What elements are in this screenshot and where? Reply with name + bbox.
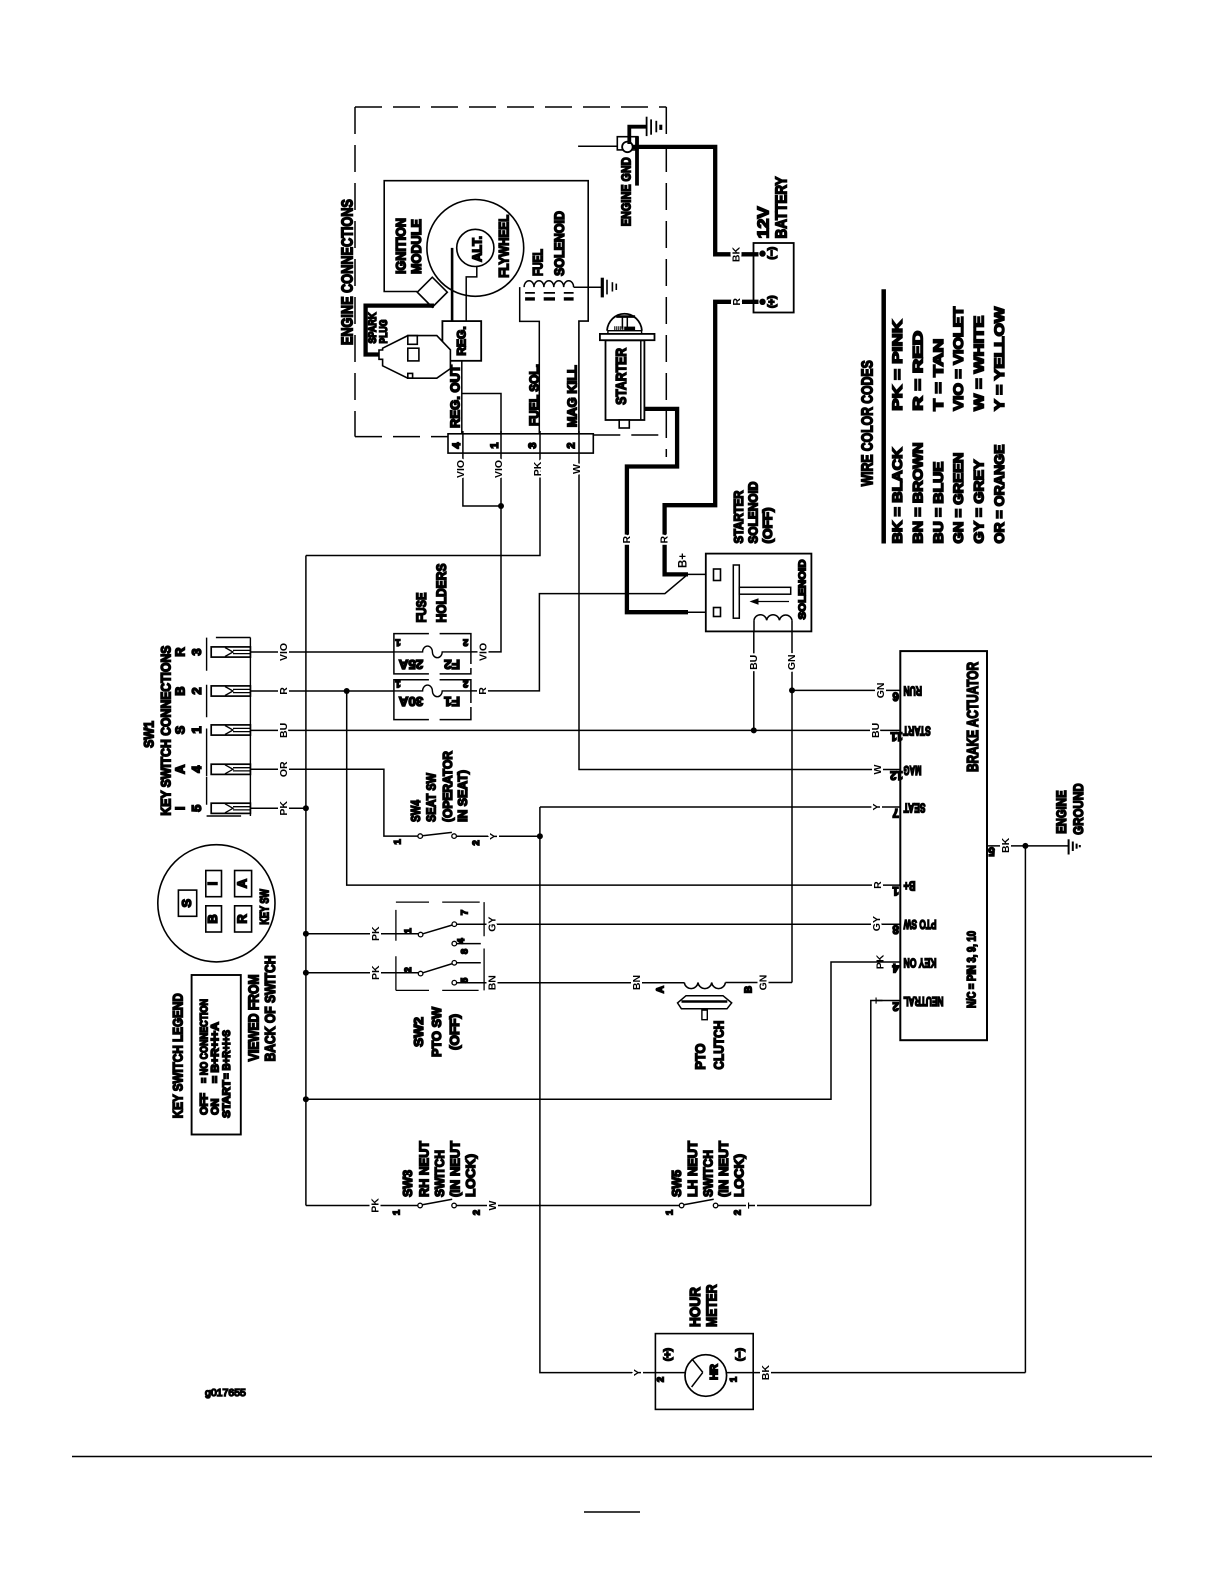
svg-text:MAG KILL: MAG KILL xyxy=(566,365,580,427)
wire W SW3 to SW5 xyxy=(456,1205,679,1207)
svg-text:R: R xyxy=(477,687,489,695)
svg-text:START: START xyxy=(221,1080,233,1118)
svg-text:BU = BLUE: BU = BLUE xyxy=(931,461,946,543)
alternator circle U? xyxy=(457,229,494,266)
svg-text:METER: METER xyxy=(704,1284,721,1327)
svg-text:Y: Y xyxy=(871,803,883,810)
pin 1 B+ xyxy=(872,878,916,896)
svg-text:7: 7 xyxy=(459,910,470,915)
battery negative terminal xyxy=(759,250,765,256)
SW1 terminal 3 xyxy=(211,647,250,657)
svg-text:GY = GREY: GY = GREY xyxy=(972,460,987,544)
brake actuator module box xyxy=(900,651,987,1040)
svg-text:SOLENOID: SOLENOID xyxy=(797,559,809,619)
solenoid plunger arrow xyxy=(756,601,789,603)
svg-text:BRAKE ACTUATOR: BRAKE ACTUATOR xyxy=(965,662,982,772)
svg-text:FLYWHEEL: FLYWHEEL xyxy=(497,215,512,278)
svg-text:R: R xyxy=(173,647,188,657)
wire alt to reg (left) xyxy=(451,248,454,321)
svg-text:Y = YELLOW: Y = YELLOW xyxy=(992,306,1007,410)
wire BN SW2-5 to PTO clutch xyxy=(457,982,685,984)
svg-text:A: A xyxy=(173,764,188,774)
engine connector J1 box xyxy=(448,434,593,453)
svg-text:2: 2 xyxy=(655,1377,666,1382)
svg-text:SW3: SW3 xyxy=(400,1170,415,1197)
svg-text:RUN: RUN xyxy=(903,684,922,698)
switch SW4 seat xyxy=(393,832,483,845)
svg-text:A: A xyxy=(234,878,249,888)
label SW5 LH NEUT SWITCH (IN NEUT LOCK) xyxy=(669,1141,747,1197)
svg-text:GN = GREEN: GN = GREEN xyxy=(951,452,966,543)
svg-text:8: 8 xyxy=(459,949,470,954)
regulator REG box xyxy=(442,321,481,361)
svg-text:ENGINE GND: ENGINE GND xyxy=(619,157,634,226)
starter body xyxy=(606,340,645,420)
wire T SW5 out xyxy=(718,1205,871,1207)
starter flange xyxy=(608,331,642,334)
engine gnd terminal box xyxy=(617,137,638,150)
svg-text:Y: Y xyxy=(488,833,500,840)
wire Y SW4 to junction xyxy=(456,835,540,837)
svg-text:BU: BU xyxy=(748,655,760,670)
svg-text:KEY SWITCH CONNECTIONS: KEY SWITCH CONNECTIONS xyxy=(159,646,174,816)
svg-text:BK: BK xyxy=(1000,837,1012,853)
svg-text:BK = BLACK: BK = BLACK xyxy=(890,447,905,543)
svg-text:R = RED: R = RED xyxy=(910,330,925,410)
svg-text:3: 3 xyxy=(527,443,539,449)
svg-text:PK: PK xyxy=(370,965,382,980)
SW1 terminal 5 xyxy=(211,803,250,813)
solenoid contact T-bar xyxy=(733,565,739,618)
SW2 blade 2-8 xyxy=(423,964,453,973)
svg-text:VIO: VIO xyxy=(493,460,505,478)
key switch legend box xyxy=(192,975,241,1135)
solenoid coil stubs xyxy=(754,620,792,631)
svg-text:(IN NEUT: (IN NEUT xyxy=(716,1141,731,1197)
wire PK key-on xyxy=(306,962,900,1099)
svg-text:STARTER: STARTER xyxy=(731,490,746,544)
svg-text:BU: BU xyxy=(870,723,882,738)
SW2 pin 1 contact xyxy=(418,932,423,937)
pin 11 START xyxy=(870,723,931,742)
svg-text:1: 1 xyxy=(395,637,401,648)
wire OR SW1-4 to seat switch xyxy=(250,769,418,836)
wire PK bus vertical xyxy=(305,556,307,1206)
pin 12 MAG xyxy=(872,763,922,781)
svg-text:KEY SWITCH LEGEND: KEY SWITCH LEGEND xyxy=(170,993,186,1118)
ground (engine gnd) xyxy=(647,117,661,136)
starter dome details xyxy=(615,317,635,331)
SW3 contacts and blade xyxy=(418,1199,457,1207)
label MAG KILL xyxy=(566,365,580,427)
wire VIO pin1 drop to fuse F2 xyxy=(471,454,501,652)
svg-text:BACK OF SWITCH: BACK OF SWITCH xyxy=(263,955,279,1061)
svg-text:REG.: REG. xyxy=(455,326,469,355)
ignition module U-box xyxy=(384,181,588,434)
label SW3 RH NEUT SWITCH (IN NEUT LOCK) xyxy=(400,1141,478,1197)
svg-text:GROUND: GROUND xyxy=(1070,783,1086,835)
svg-text:PLUG: PLUG xyxy=(378,320,390,344)
svg-text:PK: PK xyxy=(370,1198,382,1213)
svg-text:STARTER: STARTER xyxy=(613,348,630,405)
PTO clutch plate xyxy=(678,996,732,1009)
svg-text:25A: 25A xyxy=(398,657,423,672)
hour meter wire inside left xyxy=(655,1372,685,1374)
wire color codes title bar xyxy=(881,289,886,543)
key sw tab S xyxy=(178,890,196,916)
svg-text:VIO: VIO xyxy=(455,460,467,478)
svg-text:11: 11 xyxy=(890,729,903,741)
svg-text:HOUR: HOUR xyxy=(687,1287,704,1327)
svg-text:ENGINE CONNECTIONS: ENGINE CONNECTIONS xyxy=(340,199,357,345)
svg-text:12: 12 xyxy=(890,769,903,781)
label SW2 PTO SW (OFF) xyxy=(411,1006,462,1057)
svg-text:1: 1 xyxy=(892,884,899,896)
SW2 blade 1-7 xyxy=(423,925,453,934)
label FUEL SOL. xyxy=(528,364,542,426)
svg-text:4: 4 xyxy=(451,442,463,449)
switch SW2 PTO top pole wire xyxy=(306,933,418,935)
label STARTER SOLENOID (OFF) xyxy=(731,482,775,544)
svg-text:5: 5 xyxy=(988,844,995,856)
SW2 pin 8 stub xyxy=(457,962,481,964)
svg-text:LOCK): LOCK) xyxy=(732,1154,747,1197)
svg-text:2: 2 xyxy=(472,1210,483,1215)
svg-text:SW5: SW5 xyxy=(669,1170,684,1197)
svg-text:A: A xyxy=(656,986,667,993)
SW1 terminal letters R B S A I xyxy=(173,647,188,810)
svg-text:GN: GN xyxy=(786,654,798,670)
svg-text:I: I xyxy=(205,882,220,886)
svg-text:(+): (+) xyxy=(662,1348,674,1361)
svg-text:HR: HR xyxy=(709,1364,721,1380)
svg-text:SWITCH: SWITCH xyxy=(701,1150,716,1197)
svg-text:ALT.: ALT. xyxy=(471,236,485,262)
solenoid coil xyxy=(754,615,792,621)
svg-text:SOLENOID: SOLENOID xyxy=(746,482,761,544)
solenoid contact stem xyxy=(739,587,790,594)
svg-text:2: 2 xyxy=(566,443,578,449)
SW2 pin 2 contact xyxy=(418,971,423,976)
wire R battery positive (thick) xyxy=(665,302,759,575)
svg-text:REG. OUT: REG. OUT xyxy=(449,365,463,428)
svg-text:(IN NEUT: (IN NEUT xyxy=(448,1141,463,1197)
svg-text:BN: BN xyxy=(487,975,499,990)
wire R riser to B+ line xyxy=(347,691,901,885)
wire W pin2 drop to MAG xyxy=(579,454,900,770)
battery BT1 xyxy=(754,243,794,313)
wire engine gnd to ground symbol xyxy=(629,127,646,144)
svg-text:VIO: VIO xyxy=(478,643,490,661)
svg-text:2: 2 xyxy=(403,967,414,972)
fuse F1 element xyxy=(394,685,471,697)
SW2 pin 7 contact xyxy=(452,922,457,927)
SW2 bracket marks xyxy=(396,902,484,990)
node VIO junction xyxy=(498,503,504,509)
wire BK battery negative (thick) xyxy=(632,147,759,254)
svg-text:KEY ON: KEY ON xyxy=(904,955,937,969)
solenoid lower terminal xyxy=(714,608,721,617)
fuel solenoid body / wire to pin 3 xyxy=(520,287,540,434)
svg-text:MODULE: MODULE xyxy=(409,219,424,274)
svg-text:OR: OR xyxy=(278,761,290,777)
fuel solenoid coil xyxy=(524,281,574,287)
PTO clutch stem xyxy=(702,1010,707,1020)
switch SW2 PTO bottom pole wire xyxy=(306,972,418,974)
SW1 terminal 4 xyxy=(211,764,250,774)
svg-text:ON: ON xyxy=(210,1098,222,1115)
svg-text:2: 2 xyxy=(892,1000,898,1012)
svg-text:B: B xyxy=(173,686,188,695)
key sw tab B xyxy=(206,906,222,932)
svg-text:Y: Y xyxy=(632,1369,644,1376)
svg-text:WIRE COLOR CODES: WIRE COLOR CODES xyxy=(860,360,877,486)
svg-text:W = WHITE: W = WHITE xyxy=(972,316,987,411)
pin 8 PTO SW xyxy=(871,916,937,935)
PTO clutch coil xyxy=(684,983,725,989)
fuse F2 box xyxy=(394,634,471,674)
svg-text:NEUTRAL: NEUTRAL xyxy=(903,994,943,1008)
footer page mark xyxy=(584,1511,640,1513)
SW2 pin 8 contact xyxy=(452,961,457,966)
footer rule xyxy=(72,1456,1152,1458)
svg-text:8: 8 xyxy=(892,923,899,935)
svg-text:VIEWED FROM: VIEWED FROM xyxy=(247,974,263,1061)
wire to engine gnd terminal xyxy=(578,145,617,147)
pin 4 KEY ON xyxy=(875,954,937,973)
engine gnd strap stub xyxy=(635,137,639,186)
spark plug thick lead xyxy=(366,306,434,355)
svg-text:(OFF): (OFF) xyxy=(447,1014,462,1050)
solenoid upper terminal xyxy=(714,569,721,581)
wire VIO SW1-3 to fuse F2 xyxy=(250,651,394,653)
svg-text:GN: GN xyxy=(758,975,770,991)
battery positive terminal xyxy=(759,299,765,305)
svg-text:MAG: MAG xyxy=(904,763,922,777)
label fuel solenoid xyxy=(531,211,567,276)
svg-text:= B+R+I+S: = B+R+I+S xyxy=(221,1030,233,1079)
svg-text:FUEL SOL.: FUEL SOL. xyxy=(528,364,542,426)
hour meter wire right / BK xyxy=(727,1372,1026,1374)
svg-text:W: W xyxy=(872,764,884,774)
svg-text:ENGINE: ENGINE xyxy=(1053,790,1069,834)
key sw tab I xyxy=(206,871,222,897)
hour meter hands xyxy=(692,1359,703,1387)
key sw tab R xyxy=(235,906,252,932)
legend line OFF xyxy=(199,999,211,1115)
engine connections dashed boundary xyxy=(355,107,666,457)
svg-text:SEAT SW: SEAT SW xyxy=(424,772,439,822)
svg-text:HOLDERS: HOLDERS xyxy=(434,564,449,623)
svg-text:PK: PK xyxy=(370,926,382,941)
svg-text:KEY SW: KEY SW xyxy=(258,889,272,925)
svg-text:W: W xyxy=(487,1200,499,1210)
label PTO CLUTCH xyxy=(692,1021,727,1070)
svg-text:1: 1 xyxy=(729,1376,740,1382)
svg-text:4: 4 xyxy=(892,961,899,973)
svg-text:BN = BROWN: BN = BROWN xyxy=(910,443,925,544)
svg-text:2: 2 xyxy=(189,687,204,694)
svg-text:PK = PINK: PK = PINK xyxy=(890,319,905,410)
svg-text:LOCK): LOCK) xyxy=(463,1154,478,1197)
wire GN run to pin 6 xyxy=(792,689,900,691)
svg-text:6: 6 xyxy=(892,689,898,701)
svg-text:= B+R+I+A: = B+R+I+A xyxy=(210,1022,222,1083)
spark plug xyxy=(379,336,450,379)
wire T neutral riser xyxy=(871,1001,901,1206)
svg-text:GN: GN xyxy=(875,683,887,699)
wire PK pin3 drop and run left xyxy=(306,454,540,556)
svg-text:BN: BN xyxy=(631,975,643,990)
svg-text:R: R xyxy=(872,881,884,889)
svg-text:F1: F1 xyxy=(444,694,460,709)
svg-text:B: B xyxy=(205,914,220,923)
svg-text:(+): (+) xyxy=(767,296,778,309)
wire thin tail to solenoid B+ terminal xyxy=(688,573,714,575)
wire R fuse F1 out to solenoid B+ xyxy=(471,575,688,691)
svg-text:BU: BU xyxy=(278,723,290,738)
wire thin tail to solenoid lower terminal xyxy=(688,611,714,613)
svg-text:(−): (−) xyxy=(734,1348,746,1361)
ground (engine ground right) xyxy=(1069,839,1080,854)
svg-text:IGNITION: IGNITION xyxy=(394,218,409,274)
svg-text:4: 4 xyxy=(456,938,467,944)
wire GN solenoid coil riser xyxy=(791,631,793,982)
wire GY SW2-7 to PTO SW pin 8 xyxy=(457,923,901,925)
wire GN clutch to riser xyxy=(725,982,792,984)
svg-text:R: R xyxy=(621,535,633,543)
ignition pickup diamond xyxy=(417,277,447,307)
wire BK riser to hour meter xyxy=(1024,846,1026,1373)
key switch KEY SW circle xyxy=(158,845,275,962)
ground (fuel solenoid) xyxy=(602,278,616,298)
fuse F1 box xyxy=(394,680,471,720)
svg-text:2: 2 xyxy=(471,840,482,845)
flywheel xyxy=(427,200,524,297)
wire reg out branch to pin 1 xyxy=(462,394,501,434)
svg-text:2: 2 xyxy=(463,637,468,648)
label HOUR METER xyxy=(687,1284,721,1327)
pin 2 NEUTRAL xyxy=(874,994,944,1012)
label FUSE HOLDERS xyxy=(414,564,449,623)
wire Y riser seat/hour meter xyxy=(540,807,900,1373)
svg-text:(OPERATOR: (OPERATOR xyxy=(440,750,455,822)
hour meter M2 box xyxy=(655,1334,753,1410)
svg-text:1: 1 xyxy=(393,838,404,844)
wire PK SW1-5 to bus xyxy=(250,807,306,809)
svg-text:7: 7 xyxy=(892,806,898,818)
engine gnd terminal circle xyxy=(622,142,633,153)
svg-text:START: START xyxy=(903,724,931,738)
svg-text:1: 1 xyxy=(489,443,501,449)
svg-text:R: R xyxy=(278,687,290,695)
svg-text:SW1: SW1 xyxy=(142,720,157,747)
legend line ON xyxy=(210,1022,222,1115)
svg-text:N/C = PIN 3, 9, 10: N/C = PIN 3, 9, 10 xyxy=(967,931,979,1008)
svg-text:PK: PK xyxy=(278,801,290,816)
svg-text:R: R xyxy=(731,298,743,306)
svg-text:1: 1 xyxy=(395,678,401,689)
switch SW3 wire from PK bus xyxy=(306,1205,418,1207)
svg-text:CLUTCH: CLUTCH xyxy=(711,1021,727,1070)
node junction dots xyxy=(303,687,1029,1102)
label VIEWED FROM BACK OF SWITCH xyxy=(247,955,279,1061)
svg-text:GY: GY xyxy=(871,916,883,931)
fuse F2 element xyxy=(394,646,471,658)
starter bottom tab xyxy=(619,420,629,428)
pin 5 BK (right side) xyxy=(987,837,1069,856)
label ignition module xyxy=(394,218,425,274)
SW5 contacts and blade xyxy=(679,1199,718,1207)
svg-text:T: T xyxy=(746,1202,758,1209)
svg-text:PTO SW: PTO SW xyxy=(429,1006,444,1057)
wire alt to reg (right jog) xyxy=(466,267,477,322)
svg-text:W: W xyxy=(571,464,583,474)
label SW4 SEAT SW (OPERATOR IN SEAT) xyxy=(408,750,470,822)
svg-text:S: S xyxy=(173,725,188,734)
svg-text:1: 1 xyxy=(403,927,414,933)
svg-text:R: R xyxy=(234,914,249,924)
SW1 terminal numbers 3 2 1 4 5 xyxy=(189,648,204,812)
svg-text:(−): (−) xyxy=(767,247,778,260)
svg-text:BATTERY: BATTERY xyxy=(774,176,791,238)
svg-text:3: 3 xyxy=(189,648,204,655)
svg-text:12V: 12V xyxy=(756,206,773,238)
svg-text:B+: B+ xyxy=(904,878,916,892)
svg-text:GY: GY xyxy=(487,917,499,932)
svg-text:SOLENOID: SOLENOID xyxy=(552,211,567,276)
wire reg out to pin 4 xyxy=(461,361,463,434)
svg-text:30A: 30A xyxy=(398,694,423,709)
wire BU SW1-1 to START pin 11 xyxy=(250,729,900,731)
svg-text:OR = ORANGE: OR = ORANGE xyxy=(992,445,1007,544)
svg-text:SW2: SW2 xyxy=(411,1017,426,1047)
label spark plug xyxy=(367,312,390,343)
svg-text:B: B xyxy=(744,986,755,993)
svg-text:2: 2 xyxy=(463,678,468,689)
pin 7 SEAT xyxy=(871,800,926,818)
svg-text:B+: B+ xyxy=(678,553,690,568)
svg-text:1: 1 xyxy=(189,726,204,733)
SW2 pin 5 contact xyxy=(452,980,457,985)
svg-text:SW4: SW4 xyxy=(408,799,423,822)
svg-text:SEAT: SEAT xyxy=(903,800,925,814)
SW1 terminal 1 xyxy=(211,725,250,735)
SW1 connector rail xyxy=(207,638,251,817)
svg-text:2: 2 xyxy=(733,1210,744,1215)
starter M1 dome xyxy=(607,314,642,331)
label ENGINE GROUND xyxy=(1053,783,1086,835)
pin stems through connector xyxy=(463,431,579,454)
SW1 terminal 2 xyxy=(211,686,250,696)
svg-text:VIO: VIO xyxy=(278,643,290,661)
svg-text:1: 1 xyxy=(665,1209,676,1215)
wire VIO pin4 drop xyxy=(463,454,501,506)
wire BU solenoid coil to start line xyxy=(753,631,755,730)
svg-text:5: 5 xyxy=(189,805,204,812)
svg-text:g017655: g017655 xyxy=(205,1387,246,1399)
SW2 pin 4 stub xyxy=(457,943,481,945)
svg-text:R: R xyxy=(659,535,671,543)
wire R SW1-2 to fuse F1 xyxy=(250,690,394,692)
svg-text:I: I xyxy=(173,806,188,810)
svg-text:PTO: PTO xyxy=(692,1044,708,1070)
svg-text:IN SEAT): IN SEAT) xyxy=(455,770,470,822)
svg-text:1: 1 xyxy=(392,1209,403,1215)
wire fuel solenoid to ground xyxy=(574,286,601,288)
svg-text:SWITCH: SWITCH xyxy=(432,1150,447,1197)
svg-text:FUSE: FUSE xyxy=(414,593,429,623)
